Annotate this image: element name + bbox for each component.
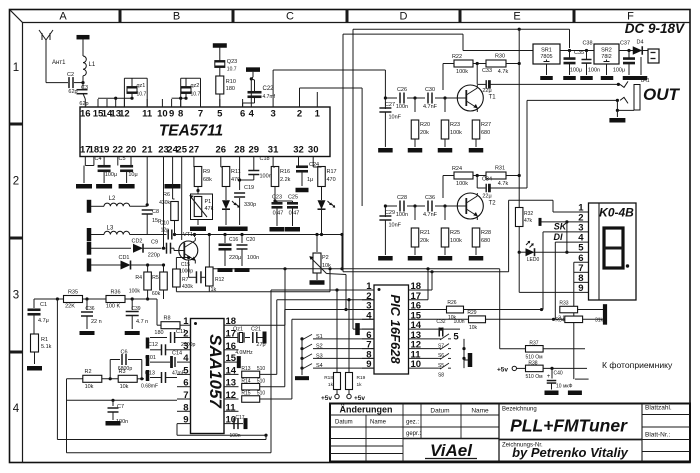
svg-text:A: A <box>59 11 67 23</box>
svg-text:32: 32 <box>293 145 304 156</box>
svg-text:9: 9 <box>169 109 174 120</box>
svg-text:R16: R16 <box>280 169 290 175</box>
svg-text:gez.:: gez.: <box>406 420 419 426</box>
svg-text:SR2: SR2 <box>601 48 612 54</box>
svg-text:330p: 330p <box>244 202 256 208</box>
svg-text:3: 3 <box>270 109 275 120</box>
svg-text:R6: R6 <box>163 192 170 198</box>
svg-text:T2: T2 <box>489 201 497 207</box>
svg-text:10 мкФ: 10 мкФ <box>556 384 573 390</box>
svg-text:30: 30 <box>308 145 319 156</box>
svg-text:6: 6 <box>240 109 245 120</box>
svg-text:100k: 100k <box>456 181 468 187</box>
svg-text:10k: 10k <box>85 384 94 390</box>
svg-text:100k: 100k <box>450 238 462 244</box>
svg-text:4.7μ: 4.7μ <box>38 318 49 324</box>
svg-text:10k: 10k <box>469 325 478 331</box>
svg-text:C18: C18 <box>260 156 270 162</box>
svg-text:220p: 220p <box>148 253 160 259</box>
svg-text:18: 18 <box>89 145 100 156</box>
svg-text:C39: C39 <box>131 306 140 312</box>
svg-text:C20: C20 <box>246 237 255 243</box>
svg-text:27p: 27p <box>256 342 265 348</box>
svg-text:L3: L3 <box>107 226 114 232</box>
svg-text:C37: C37 <box>620 41 630 47</box>
svg-text:C23: C23 <box>272 195 282 201</box>
svg-text:gepr.:: gepr.: <box>406 431 421 437</box>
svg-text:10nF: 10nF <box>389 115 402 121</box>
svg-text:LED0: LED0 <box>527 257 540 263</box>
svg-text:1k: 1k <box>328 382 334 388</box>
svg-text:100n: 100n <box>588 68 600 74</box>
svg-text:C21: C21 <box>251 327 261 333</box>
svg-text:31: 31 <box>268 145 279 156</box>
svg-text:by Petrenko Vitaliy: by Petrenko Vitaliy <box>512 445 629 460</box>
svg-text:78l2: 78l2 <box>601 54 611 60</box>
svg-text:R7: R7 <box>182 277 189 283</box>
svg-text:20k: 20k <box>420 238 429 244</box>
svg-text:R33: R33 <box>559 301 568 307</box>
svg-text:C10: C10 <box>160 221 169 227</box>
svg-text:C12: C12 <box>148 342 158 348</box>
svg-text:R36: R36 <box>110 290 120 296</box>
svg-text:C16: C16 <box>229 237 238 243</box>
svg-text:510: 510 <box>257 378 266 384</box>
svg-text:OUT: OUT <box>643 85 681 104</box>
svg-text:1μ: 1μ <box>307 177 313 183</box>
svg-text:22μ: 22μ <box>482 194 491 200</box>
svg-text:PIC 16F628: PIC 16F628 <box>388 294 403 364</box>
svg-text:R38: R38 <box>528 361 537 367</box>
svg-text:2.2k: 2.2k <box>280 177 291 183</box>
svg-text:510: 510 <box>257 366 266 372</box>
svg-text:S2: S2 <box>316 344 323 350</box>
svg-text:C6: C6 <box>120 350 127 356</box>
svg-text:R32: R32 <box>524 211 533 217</box>
svg-text:PLL+FMTuner: PLL+FMTuner <box>510 416 628 436</box>
svg-text:68k: 68k <box>203 177 212 183</box>
svg-text:22: 22 <box>113 145 124 156</box>
svg-text:25: 25 <box>176 145 187 156</box>
svg-text:4.7nF: 4.7nF <box>423 212 438 218</box>
svg-text:4.7mf: 4.7mf <box>263 94 276 100</box>
svg-text:180: 180 <box>154 330 163 336</box>
svg-text:R24: R24 <box>452 166 462 172</box>
svg-text:C19: C19 <box>244 185 254 191</box>
svg-text:10μ: 10μ <box>128 172 137 178</box>
svg-text:P2: P2 <box>322 255 329 261</box>
svg-text:510: 510 <box>257 391 266 397</box>
svg-text:10: 10 <box>157 109 168 120</box>
svg-text:680: 680 <box>481 238 490 244</box>
svg-text:20k: 20k <box>420 130 429 136</box>
svg-text:4.7nF: 4.7nF <box>423 104 438 110</box>
svg-text:21: 21 <box>142 145 153 156</box>
svg-text:47k: 47k <box>524 218 533 224</box>
svg-text:47mF: 47mF <box>172 371 185 377</box>
svg-text:Änderungen: Änderungen <box>340 405 393 415</box>
svg-text:+5v: +5v <box>497 366 508 373</box>
svg-text:22K: 22K <box>65 304 75 310</box>
svg-text:Name: Name <box>370 420 387 426</box>
svg-text:5.1k: 5.1k <box>41 344 52 350</box>
svg-text:7: 7 <box>198 109 203 120</box>
svg-text:R27: R27 <box>481 122 491 128</box>
svg-text:К фотоприемнику: К фотоприемнику <box>602 360 673 370</box>
svg-text:R29: R29 <box>467 310 476 316</box>
svg-text:510 Ом: 510 Ом <box>525 374 543 380</box>
svg-text:R37: R37 <box>529 341 538 347</box>
svg-text:Datum: Datum <box>430 408 449 415</box>
svg-text:R14: R14 <box>241 378 250 384</box>
svg-text:C9: C9 <box>151 240 158 246</box>
svg-text:R19: R19 <box>357 375 366 381</box>
svg-text:29: 29 <box>249 145 260 156</box>
svg-text:1: 1 <box>13 62 19 74</box>
svg-text:4: 4 <box>249 109 255 120</box>
svg-text:2200p: 2200p <box>181 342 196 348</box>
svg-text:R2: R2 <box>84 369 91 375</box>
svg-text:Blatt-Nr.:: Blatt-Nr.: <box>645 432 670 439</box>
svg-text:4.7 n: 4.7 n <box>136 319 148 325</box>
svg-text:1: 1 <box>315 109 321 120</box>
svg-text:C3: C3 <box>81 85 88 91</box>
svg-text:R35: R35 <box>68 290 78 296</box>
svg-text:19: 19 <box>99 145 110 156</box>
svg-text:S4: S4 <box>316 363 323 369</box>
svg-text:C36: C36 <box>425 195 435 201</box>
svg-text:qz1: qz1 <box>137 83 146 89</box>
svg-text:Ант1: Ант1 <box>52 60 66 66</box>
svg-text:100n: 100n <box>260 174 272 180</box>
svg-text:R31: R31 <box>495 166 505 172</box>
svg-text:R15: R15 <box>241 391 250 397</box>
svg-text:C27: C27 <box>385 102 395 108</box>
svg-text:1000p: 1000p <box>179 269 193 275</box>
svg-text:430k: 430k <box>182 284 193 290</box>
svg-text:26: 26 <box>216 145 227 156</box>
svg-text:R21: R21 <box>420 230 430 236</box>
svg-text:L2: L2 <box>109 196 116 202</box>
svg-text:C36: C36 <box>85 306 94 312</box>
svg-text:7805: 7805 <box>540 54 552 60</box>
svg-text:R4: R4 <box>135 275 142 281</box>
svg-text:100n: 100n <box>396 104 408 110</box>
svg-text:12p: 12p <box>161 228 170 234</box>
svg-text:C1: C1 <box>40 302 47 308</box>
svg-text:B: B <box>173 11 180 23</box>
svg-text:5: 5 <box>217 109 223 120</box>
svg-text:8: 8 <box>178 109 183 120</box>
svg-text:2: 2 <box>13 176 19 188</box>
svg-text:Name: Name <box>471 408 489 415</box>
svg-text:DI: DI <box>554 232 563 242</box>
svg-text:0.47: 0.47 <box>273 211 284 217</box>
svg-text:R26: R26 <box>447 300 456 306</box>
svg-text:100μ: 100μ <box>105 172 117 178</box>
svg-text:C38: C38 <box>582 41 592 47</box>
svg-text:R23: R23 <box>450 122 460 128</box>
svg-text:Qz1: Qz1 <box>233 327 243 333</box>
svg-text:C33: C33 <box>482 68 492 74</box>
svg-text:1k: 1k <box>357 382 363 388</box>
svg-text:10.7: 10.7 <box>137 92 147 98</box>
svg-text:L1: L1 <box>89 62 96 68</box>
svg-text:12: 12 <box>119 109 130 120</box>
svg-text:C35: C35 <box>574 50 584 56</box>
svg-text:C4: C4 <box>94 156 101 162</box>
svg-text:TEA5711: TEA5711 <box>159 122 223 139</box>
svg-text:4.7k: 4.7k <box>498 181 509 187</box>
svg-text:10nF: 10nF <box>389 223 402 229</box>
svg-text:100μ: 100μ <box>613 68 625 74</box>
svg-text:0.47: 0.47 <box>289 211 300 217</box>
svg-text:R8: R8 <box>163 316 170 322</box>
svg-text:10k: 10k <box>120 384 129 390</box>
svg-text:R30: R30 <box>495 54 505 60</box>
svg-text:Bezeichnung: Bezeichnung <box>502 407 537 413</box>
svg-text:SAA1057: SAA1057 <box>206 334 225 409</box>
svg-text:C34: C34 <box>482 177 492 183</box>
svg-text:430k: 430k <box>159 200 170 206</box>
svg-text:CD2: CD2 <box>131 239 142 245</box>
svg-text:2: 2 <box>297 109 302 120</box>
svg-text:+5v: +5v <box>354 395 365 402</box>
svg-text:4.0MHz: 4.0MHz <box>235 350 253 356</box>
svg-text:R10: R10 <box>226 79 236 85</box>
svg-text:C15: C15 <box>181 262 190 268</box>
svg-text:100k: 100k <box>450 130 462 136</box>
svg-text:S8: S8 <box>438 373 444 379</box>
svg-text:ViAel: ViAel <box>430 441 473 460</box>
svg-text:11: 11 <box>142 109 153 120</box>
svg-text:C26: C26 <box>397 87 407 93</box>
svg-text:R13: R13 <box>241 366 250 372</box>
svg-text:R22: R22 <box>452 54 462 60</box>
svg-text:22 n: 22 n <box>91 319 102 325</box>
svg-text:R25: R25 <box>450 230 460 236</box>
svg-text:10.7: 10.7 <box>191 92 201 98</box>
svg-text:C29: C29 <box>385 210 395 216</box>
svg-text:R18: R18 <box>324 375 333 381</box>
svg-text:C: C <box>286 11 294 23</box>
svg-text:C5: C5 <box>118 156 125 162</box>
svg-text:S1: S1 <box>316 334 323 340</box>
svg-text:D4: D4 <box>636 40 643 46</box>
svg-text:R5: R5 <box>152 275 159 281</box>
svg-text:4.7k: 4.7k <box>498 69 509 75</box>
svg-text:6800p: 6800p <box>118 366 133 372</box>
svg-text:Q23: Q23 <box>227 59 237 65</box>
svg-text:E: E <box>513 11 520 23</box>
svg-text:K0-4B: K0-4B <box>599 206 634 220</box>
svg-text:R12: R12 <box>215 277 224 283</box>
svg-text:D: D <box>400 11 408 23</box>
svg-text:27: 27 <box>189 145 200 156</box>
svg-text:C14: C14 <box>172 351 182 357</box>
svg-text:22μ: 22μ <box>482 88 491 94</box>
svg-text:180: 180 <box>226 86 235 92</box>
svg-text:DC 9-18V: DC 9-18V <box>625 21 685 36</box>
svg-text:20: 20 <box>126 145 137 156</box>
svg-text:100μ: 100μ <box>570 68 582 74</box>
svg-text:T1: T1 <box>489 94 497 100</box>
svg-text:47k: 47k <box>205 206 214 212</box>
svg-text:62p: 62p <box>68 89 77 95</box>
svg-text:4: 4 <box>13 403 20 415</box>
svg-text:C22: C22 <box>263 86 275 92</box>
svg-text:R1: R1 <box>41 337 48 343</box>
svg-text:16: 16 <box>80 109 91 120</box>
svg-text:680: 680 <box>481 130 490 136</box>
svg-text:C25: C25 <box>288 195 298 201</box>
svg-text:100n: 100n <box>247 255 259 261</box>
svg-text:100 K: 100 K <box>106 304 121 310</box>
svg-text:+5v: +5v <box>321 395 332 402</box>
svg-text:C8: C8 <box>152 209 159 215</box>
svg-text:C30: C30 <box>425 87 435 93</box>
svg-text:CD1: CD1 <box>118 255 129 261</box>
svg-text:+: + <box>547 374 551 380</box>
svg-text:100k: 100k <box>456 69 468 75</box>
svg-text:C11: C11 <box>176 329 186 335</box>
svg-text:10.7: 10.7 <box>227 67 237 73</box>
svg-text:R28: R28 <box>481 230 491 236</box>
svg-text:C17: C17 <box>235 415 244 421</box>
svg-text:Datum: Datum <box>335 420 353 426</box>
svg-text:P1: P1 <box>205 199 212 205</box>
svg-text:5: 5 <box>453 332 459 343</box>
svg-text:100n: 100n <box>396 212 408 218</box>
svg-text:0.68mF: 0.68mF <box>141 384 158 390</box>
svg-text:28: 28 <box>234 145 245 156</box>
svg-text:R20: R20 <box>420 122 430 128</box>
svg-text:R34: R34 <box>555 317 564 323</box>
svg-text:SR1: SR1 <box>541 48 552 54</box>
svg-text:10k: 10k <box>448 315 457 321</box>
svg-text:R17: R17 <box>327 169 337 175</box>
svg-text:100k: 100k <box>129 289 141 295</box>
svg-text:31k: 31k <box>595 317 604 323</box>
svg-text:100n: 100n <box>229 433 240 439</box>
svg-text:60k: 60k <box>152 291 161 297</box>
svg-text:62p: 62p <box>79 101 88 107</box>
svg-text:C28: C28 <box>397 195 407 201</box>
svg-text:3: 3 <box>13 289 19 301</box>
svg-text:220μ: 220μ <box>229 255 241 261</box>
svg-text:qz2: qz2 <box>191 83 200 89</box>
svg-text:C2: C2 <box>67 72 74 78</box>
svg-text:C7: C7 <box>117 404 124 410</box>
svg-text:SK: SK <box>554 222 568 232</box>
svg-text:S3: S3 <box>316 353 323 359</box>
svg-text:470: 470 <box>327 177 336 183</box>
svg-text:R9: R9 <box>203 169 210 175</box>
svg-text:C40: C40 <box>554 371 563 377</box>
svg-text:Blattzahl.: Blattzahl. <box>645 405 672 412</box>
